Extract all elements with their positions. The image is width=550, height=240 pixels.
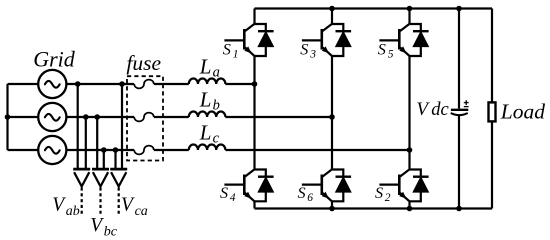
- svg-text:2: 2: [385, 192, 391, 204]
- wire leg3 middle: [331, 56, 333, 170]
- fuse box: [127, 76, 163, 160]
- wire bus to source b: [8, 116, 39, 118]
- svg-text:fuse: fuse: [126, 51, 161, 75]
- wire tap a to Vab probe: [77, 84, 79, 169]
- ac source G3: [38, 136, 66, 164]
- wire leg3 lower: [331, 201, 333, 208]
- svg-text:V: V: [121, 195, 135, 216]
- wire phase a: fuse to inductor: [154, 83, 189, 85]
- diode D6: [332, 170, 351, 202]
- wire tap a to Vca probe: [121, 84, 123, 169]
- node leg3 / top rail: [329, 6, 335, 12]
- wire capacitor lower: [458, 115, 460, 208]
- fuse F2: [134, 113, 154, 122]
- wire phase b: fuse to inductor: [154, 116, 189, 118]
- node leg5 / bottom rail: [407, 206, 413, 212]
- probe arrow Vca: [110, 169, 127, 216]
- svg-text:Load: Load: [500, 100, 545, 124]
- wire tap c to Vca probe: [114, 150, 116, 169]
- svg-text:c: c: [213, 130, 220, 146]
- transistor S3: [302, 23, 333, 56]
- node cap / top rail: [456, 6, 462, 12]
- resistor Load: [489, 102, 496, 121]
- wire tap b to Vbc probe: [96, 117, 98, 169]
- transistor S1: [224, 23, 255, 56]
- wire capacitor upper: [458, 9, 460, 109]
- svg-text:bc: bc: [104, 224, 118, 239]
- transistor S2: [379, 169, 410, 202]
- svg-text:ca: ca: [135, 204, 148, 219]
- svg-text:V: V: [52, 195, 66, 216]
- wire phase c: fuse to inductor: [154, 149, 189, 151]
- svg-text:6: 6: [307, 192, 313, 204]
- wire phase a: inductor to leg 1: [225, 83, 254, 85]
- svg-text:S: S: [375, 184, 383, 202]
- svg-text:L: L: [199, 54, 212, 78]
- node leg3 / bottom rail: [329, 206, 335, 212]
- wire leg1 lower: [253, 201, 255, 208]
- wire load lower: [491, 121, 493, 208]
- wire phase a: source to fuse: [66, 83, 134, 85]
- wire leg3 upper: [331, 9, 333, 25]
- capacitor C1 Vdc: [451, 110, 469, 115]
- wire left bus: [6, 84, 8, 150]
- svg-text:S: S: [300, 40, 308, 58]
- wire phase b: source to fuse: [66, 116, 134, 118]
- wire leg5 lower: [408, 201, 410, 208]
- transistor S6: [302, 169, 333, 202]
- wire tap b to Vab probe: [85, 117, 87, 169]
- node leg5 / top rail: [407, 6, 413, 12]
- ac source G2: [38, 103, 66, 131]
- node phase a / leg1: [252, 81, 258, 87]
- node tap c2: [113, 147, 119, 153]
- node tap a1: [75, 81, 81, 87]
- wire phase c: inductor to leg 5: [225, 149, 409, 151]
- diode D5: [410, 24, 429, 56]
- svg-text:1: 1: [233, 48, 239, 60]
- node phase c / leg5: [407, 147, 413, 153]
- transistor S5: [379, 23, 410, 56]
- svg-text:dc: dc: [431, 100, 449, 120]
- wire phase c: source to fuse: [66, 149, 134, 151]
- probe arrow Vbc: [92, 169, 109, 216]
- wire dc+ top rail: [255, 7, 493, 9]
- svg-text:S: S: [378, 40, 386, 58]
- node tap b1: [83, 114, 89, 120]
- node cap / bottom rail: [456, 206, 462, 212]
- fuse F3: [134, 146, 154, 155]
- wire load upper: [491, 9, 493, 103]
- probe arrow Vab: [73, 169, 90, 216]
- node tap a2: [119, 81, 125, 87]
- svg-text:V: V: [90, 215, 104, 236]
- svg-text:L: L: [199, 87, 212, 111]
- inductor Lb: [189, 112, 226, 118]
- transistor S4: [224, 169, 255, 202]
- diode D1: [255, 24, 274, 56]
- node tap b2: [94, 114, 100, 120]
- wire leg5 middle: [408, 56, 410, 170]
- svg-text:S: S: [298, 184, 306, 202]
- node tap c1: [101, 147, 107, 153]
- svg-text:ab: ab: [66, 204, 80, 219]
- wire leg1 upper: [253, 9, 255, 25]
- wire phase b: inductor to leg 3: [225, 116, 332, 118]
- wire tap c to Vbc probe: [103, 150, 105, 169]
- svg-text:S: S: [223, 40, 231, 58]
- polarity + mark: [464, 100, 469, 106]
- svg-text:4: 4: [230, 192, 236, 204]
- svg-text:S: S: [220, 184, 228, 202]
- wire leg1 middle: [253, 56, 255, 170]
- svg-text:5: 5: [388, 48, 394, 60]
- wire leg5 upper: [408, 9, 410, 25]
- wire bus to source a: [8, 83, 39, 85]
- inductor Lc: [189, 145, 226, 151]
- ac source G1: [38, 70, 66, 98]
- node phase b / leg3: [329, 114, 335, 120]
- svg-text:V: V: [416, 99, 430, 120]
- diode D2: [410, 170, 429, 202]
- svg-text:Grid: Grid: [33, 47, 76, 72]
- wire bus to source c: [8, 149, 39, 151]
- diode D4: [255, 170, 274, 202]
- svg-text:a: a: [213, 64, 220, 80]
- inductor La: [189, 79, 226, 85]
- diode D3: [332, 24, 351, 56]
- wire dc- bottom rail: [255, 207, 493, 209]
- node bus mid junction: [5, 114, 11, 120]
- svg-text:3: 3: [309, 48, 316, 60]
- svg-text:L: L: [199, 120, 212, 144]
- svg-text:b: b: [213, 97, 220, 113]
- fuse F1: [134, 80, 154, 89]
